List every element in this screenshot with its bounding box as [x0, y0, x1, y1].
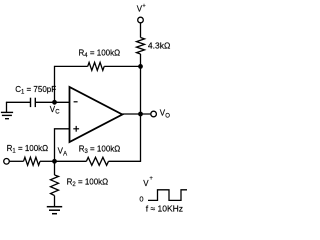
wire Va to non-inverting input — [55, 129, 70, 162]
wire R2 to ground — [54, 196, 56, 207]
svg-text:V: V — [143, 179, 149, 188]
resistor R1 body — [24, 157, 41, 165]
wire 4.3k resistor to junction — [140, 54, 142, 66]
wire op-amp output — [122, 113, 151, 115]
capacitor C1 plates — [30, 98, 32, 107]
op-amp U1 triangle — [70, 87, 123, 142]
terminal V+ — [138, 17, 144, 23]
wire C1 to inverting input — [36, 101, 70, 103]
wire Va to R3 body — [55, 160, 87, 162]
wire V+ terminal to 4.3k resistor — [140, 23, 142, 38]
node Va — [52, 159, 57, 164]
svg-text:4.3kΩ: 4.3kΩ — [148, 41, 170, 51]
wire R4 to junction — [104, 65, 140, 67]
node output junction — [138, 112, 143, 117]
resistor R2 body — [51, 175, 59, 196]
wire Vc rail to R4 body — [55, 66, 88, 102]
wire R1 to node Va — [40, 160, 55, 162]
right rail junction to R3 corner — [140, 66, 142, 161]
terminal input circle — [4, 159, 10, 165]
node junction of R4, 4.3k and output rail — [138, 64, 143, 69]
wire R3 to right rail — [109, 160, 142, 162]
node Vc — [52, 100, 57, 105]
ground G1 stem — [6, 102, 8, 112]
svg-text:A: A — [63, 152, 67, 158]
svg-text:O: O — [165, 113, 170, 119]
svg-text:f ≈ 10KHz: f ≈ 10KHz — [146, 204, 183, 214]
svg-text:C: C — [55, 110, 60, 116]
waveform square wave — [148, 190, 187, 201]
wire input to R1 body — [9, 160, 23, 162]
ground G1 bars — [1, 111, 13, 113]
svg-text:0: 0 — [139, 194, 143, 203]
resistor R3 body — [86, 157, 108, 165]
op-amp minus sign — [74, 101, 78, 103]
resistor R4 body — [88, 62, 105, 70]
terminal Vo circle — [151, 111, 157, 117]
resistor 4.3k — [137, 38, 145, 55]
svg-text:+: + — [149, 176, 153, 182]
ground G2 bars — [47, 206, 62, 208]
op-amp plus sign — [73, 128, 79, 130]
wire ground to C1 left plate — [6, 101, 30, 103]
svg-text:+: + — [142, 4, 146, 10]
wire Va to R2 body — [54, 161, 56, 175]
